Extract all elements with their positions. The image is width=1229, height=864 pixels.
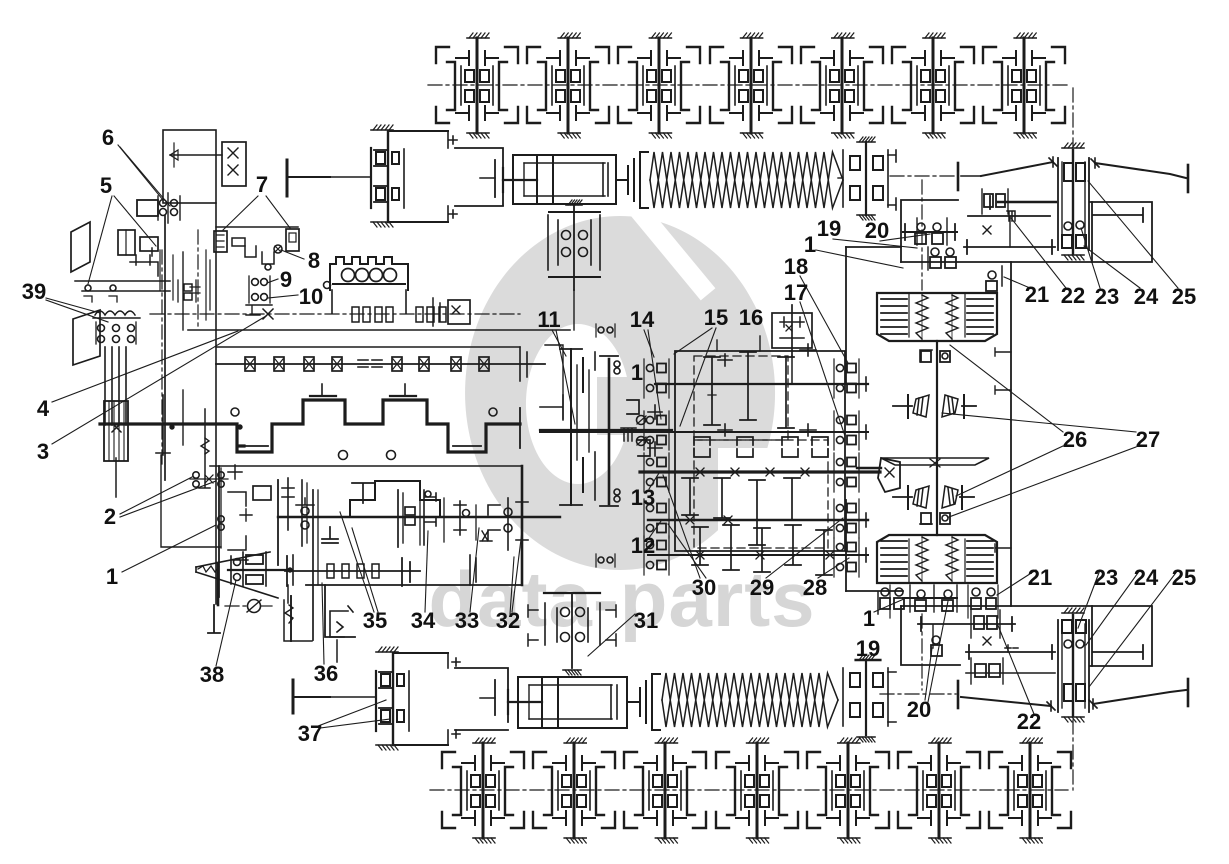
gear pairs right column shaft D [834,499,859,538]
top right gear housing box [901,200,958,262]
gear pairs right column shaft C [834,453,859,492]
lower shaft left bearing [296,498,314,505]
top right upper shaft with pinion [998,201,1056,203]
gear pairs left of shaft D label 12 [644,499,669,538]
svg-text:19: 19 [817,216,841,241]
coupling left 7 [214,231,227,252]
bracket u2 with circle [262,252,274,264]
coupling right 7 [286,229,299,251]
svg-text:20: 20 [865,218,889,243]
left second vertical [215,203,217,604]
extra cluster strokes 33 34 [420,495,444,545]
link shaft from gearbox to bottom drive [845,500,847,591]
left vertical strokes pack [206,250,210,320]
top right spring anchor unit [838,137,896,220]
svg-text:1: 1 [631,360,643,385]
dash link lower brake to anchor [921,614,923,690]
shaft line of couplings 7 [216,226,298,228]
top suspension coil spring [650,152,843,208]
cluster small gear circles top [598,327,604,333]
lower housing bottom [306,584,522,586]
pto unit 31 [528,593,616,675]
dash link anchor to upper brake [921,180,923,290]
left dash rows [190,287,200,293]
svg-text:10: 10 [299,284,323,309]
svg-text:5: 5 [100,173,112,198]
svg-text:29: 29 [750,575,774,600]
engine crankshaft [100,400,520,452]
bottom right gear pair 2 [931,625,942,656]
svg-text:26: 26 [1063,427,1087,452]
svg-text:2: 2 [104,504,116,529]
frame line upper [188,329,570,331]
top center bevel unit [548,200,600,290]
road wheel station B2 [533,738,615,843]
phi mark [225,605,247,607]
bottom right half shafts [880,693,956,695]
bracket u1 [245,246,256,257]
gearbox housing [675,351,845,551]
leader lines [118,145,163,200]
gear 32 items [488,496,528,550]
bottom track centerline [430,789,1068,791]
line from unit down [573,290,575,330]
upper brake drum assembly [877,293,997,341]
x marks on shafts [696,468,704,476]
svg-text:25: 25 [1172,565,1196,590]
pinions under 16 [800,344,816,356]
top right half shafts [890,175,956,177]
bottom right input gear pair 1 [903,585,957,612]
bottom right spring anchor unit [843,655,896,742]
svg-text:1: 1 [863,606,875,631]
road wheel station B3 [624,738,706,843]
gearbox dashed compartment lower [694,440,828,548]
gear cluster below lower brake [878,585,998,618]
svg-text:38: 38 [200,662,224,687]
gearbox internal gears row3 [682,478,698,515]
bearing shaft [216,363,545,365]
left mid components [118,230,158,255]
torsion bar bundle [104,347,128,461]
gearbox internal C gears row2 [694,437,710,445]
bracket to gearbox input [648,405,662,456]
top cylinder rod end bell [616,152,648,208]
gear 33 items [454,501,466,535]
shaft end ticks right [865,377,867,562]
svg-text:27: 27 [1136,427,1160,452]
top suspension housing bracket [388,130,448,132]
svg-text:32: 32 [496,608,520,633]
bottom suspension housing bracket [393,652,448,654]
top right lay shaft [968,215,1050,217]
svg-text:24: 24 [1134,284,1159,309]
lower housing right edge [521,466,524,585]
gear pairs right column shaft A [834,359,859,398]
road wheel station B7 [989,738,1071,843]
left third vertical segments [182,252,184,330]
selector head 39 [93,311,140,344]
svg-text:28: 28 [803,575,827,600]
cluster small gear circles bottom [598,557,604,563]
clutch release rings [627,400,639,414]
fork housing box [284,600,312,641]
left lower clutch housing [161,455,252,560]
gear box on damper line [448,300,470,324]
top suspension pivot unit [330,125,404,227]
bottom right lay shaft [966,651,1055,653]
watermark logo G [465,212,810,590]
upper bevel gear pair [893,395,976,418]
bottom suspension coil spring [662,673,838,727]
top bracket box T [494,160,496,197]
svg-text:11: 11 [537,307,560,332]
top right vertical axle of final drive [1058,143,1089,260]
hanging verticals below crank line [156,395,170,455]
bottom suspension pivot unit [330,647,409,750]
gearbox shaft C [640,470,880,473]
bottom right vertical axle of final drive [1058,608,1089,722]
dash link to bottom track [1072,720,1074,790]
road wheel station T6 [892,33,974,138]
svg-text:23: 23 [1094,565,1118,590]
gear pair below upper brake [920,350,932,362]
gearbox internal gears row4 [692,527,708,565]
svg-text:9: 9 [280,267,292,292]
gear pair above lower brake [921,513,931,524]
gear cluster 34 [398,490,436,547]
spline rect [232,238,245,246]
svg-text:12: 12 [631,533,655,558]
lower bevel gear pair [893,486,974,509]
svg-text:25: 25 [1172,284,1196,309]
road wheel station B1 [442,738,524,843]
svg-text:4: 4 [37,396,50,421]
road wheel station T1 [436,33,518,138]
svg-text:37: 37 [298,721,322,746]
svg-text:21: 21 [1025,282,1049,307]
x mark on damper line [263,309,273,319]
gear pair near 21 leader [988,271,996,279]
svg-text:35: 35 [363,608,387,633]
road wheel station T3 [618,33,700,138]
left clutch small rects [184,284,192,291]
top right gear pair 2 [928,247,956,270]
svg-text:22: 22 [1061,283,1085,308]
top track centerline [428,84,1068,86]
gear pairs right column shaft B [834,411,859,450]
top hydraulic cylinder [503,155,616,204]
gearbox top connector [716,340,718,351]
gearbox shaft D [648,519,868,521]
selector fork 36 [330,606,353,637]
reverse gear unit 16 [772,305,812,356]
gearbox shaft B [540,431,868,433]
frame line mid [216,346,520,348]
bottom cylinder bell [627,674,660,730]
right vertical frame line [1010,262,1012,606]
lower housing left parts [218,466,220,597]
top right T bar [1092,202,1143,262]
svg-text:23: 23 [1095,284,1119,309]
svg-text:13: 13 [631,485,655,510]
svg-text:1: 1 [106,564,118,589]
dash link from axle to track row [1072,88,1074,146]
gear circles targets 9 10 [252,279,259,286]
gear pairs left of shaft C label 13 [644,453,669,492]
crank end bearing [519,408,521,448]
gearbox shaft E [648,554,868,556]
gear pairs left of shaft B [644,411,669,450]
gearbox internal gears row1 [704,357,720,425]
road wheel station T5 [801,33,883,138]
svg-text:8: 8 [308,248,320,273]
lower housing top line [210,465,522,467]
left column below cone [292,555,294,585]
svg-text:18: 18 [784,254,808,279]
parallelogram plate upper [71,222,90,272]
cone drive 38 [196,552,292,633]
gear pairs right column shaft E [834,538,859,577]
road wheel station B5 [807,738,889,843]
link shaft from gearbox to top drive [845,247,847,384]
road wheel station B6 [898,738,980,843]
lower main shaft [278,516,560,518]
lower gear unit verticals [470,555,476,585]
gearbox shaft A [655,383,868,385]
bottom right T bar [1092,606,1143,666]
gearbox dashed compartment upper [694,356,788,440]
svg-text:36: 36 [314,661,338,686]
svg-text:30: 30 [692,575,716,600]
small gear unit top [170,142,246,186]
road wheel station T4 [710,33,792,138]
x circle target 8 [274,245,282,253]
bottom bracket box T [494,680,496,715]
shaft from 16 down [791,356,793,384]
engine cylinder head crown [324,257,409,313]
road wheel station T2 [527,33,609,138]
left main vertical shaft [164,216,166,480]
engine output damper row [150,313,520,315]
svg-text:15: 15 [704,305,728,330]
svg-text:33: 33 [455,608,479,633]
bottom left input flange [292,680,295,713]
left frame box [163,130,216,203]
left dashed vertical [197,230,199,330]
steering column shaft [936,341,938,535]
svg-text:34: 34 [411,608,436,633]
svg-text:16: 16 [739,305,763,330]
lower shaft gears [301,480,303,546]
svg-text:14: 14 [630,307,655,332]
clutch pair 2 targets [193,472,199,478]
bottom hydraulic cylinder [508,677,627,728]
road wheel station T7 [983,33,1065,138]
gear pairs left of shaft E [644,536,669,575]
svg-text:1: 1 [804,232,816,257]
gear pair 6 [137,193,180,223]
top right input gear pair 1 [903,218,957,245]
x mark on shaft [983,226,991,234]
plate 5 with pins [75,248,170,302]
svg-text:22: 22 [1017,709,1041,734]
torsion output [115,458,117,497]
svg-text:17: 17 [784,280,808,305]
top left input shaft flange [286,160,289,196]
bottom right gear housing box [901,606,1152,666]
lever pivot pentagon [878,458,900,492]
svg-text:39: 39 [22,279,46,304]
svg-text:31: 31 [634,608,658,633]
stepped housing above lower shaft [350,481,440,517]
x mark bottom [983,637,991,645]
steering lever blade [881,458,989,465]
joint symbols [637,416,646,425]
road wheel station B4 [716,738,798,843]
bottom right upper shaft [918,623,1015,625]
gear pairs left of shaft A [644,359,669,398]
svg-text:20: 20 [907,697,931,722]
spline grill [621,428,636,441]
main clutch cluster housing [540,345,672,506]
svg-text:19: 19 [856,636,880,661]
lower left gear housing verticals [312,490,314,640]
lower damper row [285,570,420,572]
svg-text:6: 6 [102,125,114,150]
lower brake drum assembly [877,535,997,583]
parallelogram plate lower [73,310,100,365]
left end of lower shaft [287,585,289,603]
svg-text:3: 3 [37,439,49,464]
svg-text:24: 24 [1134,565,1159,590]
crank line junction dots [170,425,174,429]
svg-text:7: 7 [256,172,268,197]
svg-text:21: 21 [1028,565,1052,590]
